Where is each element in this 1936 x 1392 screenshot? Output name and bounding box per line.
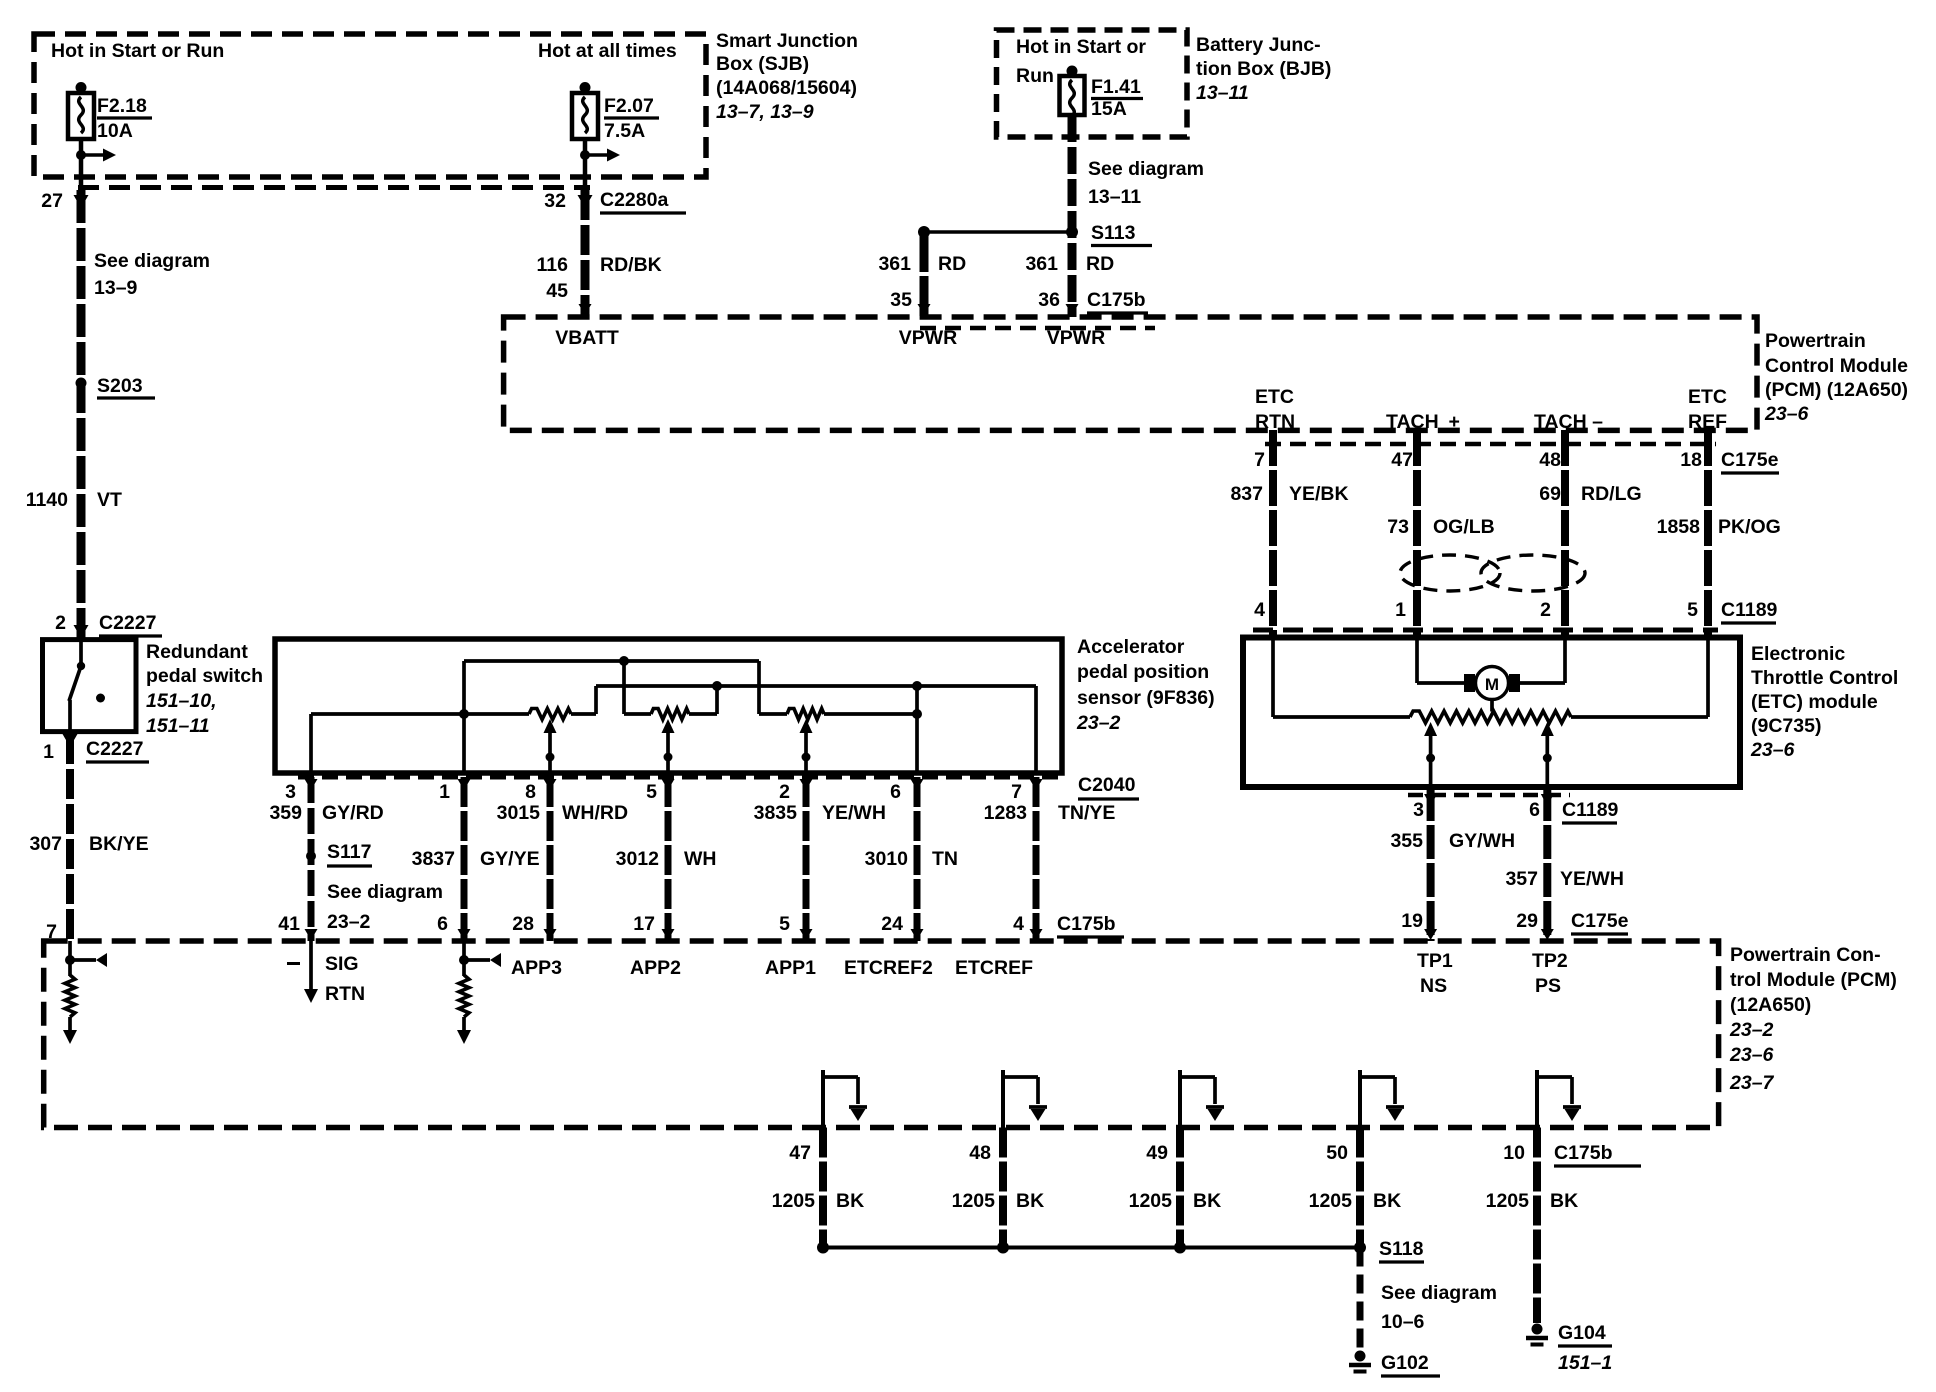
ground loop G3 inside PCM (1178, 1070, 1182, 1128)
svg-text:23–7: 23–7 (1729, 1072, 1775, 1094)
svg-text:1283: 1283 (984, 802, 1028, 824)
svg-text:18: 18 (1680, 449, 1702, 471)
svg-text:TP2: TP2 (1532, 950, 1568, 972)
pin entry arrow C175b (911, 929, 924, 940)
pin 1 connector C2227 (63, 734, 78, 747)
svg-text:pedal switch: pedal switch (146, 665, 263, 687)
svg-text:pedal position: pedal position (1077, 661, 1209, 683)
svg-text:Run: Run (1016, 65, 1054, 87)
wire pin1 riser (462, 661, 466, 773)
svg-text:48: 48 (969, 1142, 991, 1164)
svg-text:4: 4 (1254, 599, 1265, 621)
svg-text:13–7, 13–9: 13–7, 13–9 (716, 101, 814, 123)
svg-text:48: 48 (1539, 449, 1561, 471)
fuse F1.41 15A (1067, 66, 1078, 77)
Battery Junction Box (BJB) dashed enclosure (997, 30, 1188, 137)
svg-text:BK: BK (1373, 1190, 1401, 1212)
ground loop G4 inside PCM (1358, 1070, 1362, 1128)
Powertrain Control Module (PCM) lower dashed box (44, 941, 1719, 1128)
pin 5 connector C2040 (662, 779, 675, 790)
fuse F2.07 7.5A (580, 82, 591, 93)
pin 8 connector C2040 (544, 779, 557, 790)
svg-text:RTN: RTN (1255, 411, 1295, 433)
svg-text:S117: S117 (327, 841, 371, 863)
svg-text:M: M (1485, 675, 1499, 694)
svg-text:RD: RD (938, 253, 966, 275)
svg-text:ETCREF: ETCREF (955, 957, 1033, 979)
svg-text:VT: VT (97, 489, 122, 511)
pin entry arrow C175b (662, 929, 675, 940)
wiper TP1 (1429, 731, 1433, 787)
svg-text:29: 29 (1516, 910, 1538, 932)
svg-text:C175b: C175b (1057, 913, 1116, 935)
svg-text:17: 17 (633, 913, 655, 935)
connector C2040 dashed line (298, 775, 1062, 780)
svg-text:47: 47 (1391, 449, 1413, 471)
svg-text:GY/WH: GY/WH (1449, 830, 1515, 852)
svg-text:2: 2 (55, 612, 66, 634)
svg-text:See diagram: See diagram (327, 881, 443, 903)
svg-text:15A: 15A (1091, 98, 1127, 120)
pin entry arrow C175b (800, 929, 813, 940)
wire level2 to pin7 (596, 684, 1036, 688)
svg-text:Accelerator: Accelerator (1077, 636, 1185, 658)
svg-text:23–2: 23–2 (327, 911, 371, 933)
potentiometer track (1410, 711, 1571, 723)
svg-text:ETC: ETC (1688, 386, 1727, 408)
svg-text:APP2: APP2 (630, 957, 681, 979)
pin entry arrow C175b (305, 929, 318, 940)
svg-text:1205: 1205 (952, 1190, 996, 1212)
svg-text:See diagram: See diagram (1381, 1282, 1497, 1304)
svg-text:VPWR: VPWR (899, 327, 958, 349)
resistor R1 (529, 709, 571, 720)
svg-text:VBATT: VBATT (555, 327, 619, 349)
svg-text:Battery Junc-: Battery Junc- (1196, 34, 1321, 56)
svg-text:GY/RD: GY/RD (322, 802, 384, 824)
svg-text:2: 2 (1540, 599, 1551, 621)
svg-text:357: 357 (1505, 868, 1538, 890)
Electronic Throttle Control (ETC) module box (1243, 638, 1740, 788)
svg-text:7.5A: 7.5A (604, 120, 645, 142)
wire level1 (464, 659, 759, 663)
svg-text:73: 73 (1387, 516, 1409, 538)
svg-text:151–1: 151–1 (1558, 1352, 1612, 1374)
svg-text:50: 50 (1326, 1142, 1348, 1164)
svg-text:13–9: 13–9 (94, 277, 138, 299)
svg-text:7: 7 (1254, 449, 1265, 471)
svg-text:WH/RD: WH/RD (562, 802, 628, 824)
svg-text:TACH –: TACH – (1534, 411, 1603, 433)
svg-text:23–6: 23–6 (1729, 1044, 1774, 1066)
svg-text:APP1: APP1 (765, 957, 816, 979)
pin 50 wire circuit 1205 BK (1356, 1128, 1364, 1248)
svg-text:3835: 3835 (754, 802, 798, 824)
splice S203 (76, 378, 87, 389)
svg-text:359: 359 (269, 802, 302, 824)
svg-text:C2227: C2227 (99, 612, 156, 634)
wire fuse F2.07 output (583, 139, 588, 190)
wire circuit 69 RD/LG (TACH -) (1561, 430, 1569, 637)
splice S113 (1066, 226, 1078, 238)
svg-text:13–11: 13–11 (1088, 186, 1141, 208)
svg-text:1: 1 (1395, 599, 1406, 621)
wiper APP3 (548, 731, 552, 773)
svg-text:5: 5 (779, 913, 790, 935)
svg-text:See diagram: See diagram (94, 250, 210, 272)
pin 47 wire circuit 1205 BK (819, 1128, 827, 1248)
wire S113 branch (924, 230, 1072, 234)
svg-text:trol Module (PCM): trol Module (PCM) (1730, 969, 1897, 991)
wire pin7 riser (1034, 686, 1038, 773)
svg-text:19: 19 (1401, 910, 1423, 932)
svg-text:36: 36 (1038, 289, 1060, 311)
svg-text:F2.07: F2.07 (604, 95, 654, 117)
svg-text:Smart Junction: Smart Junction (716, 30, 858, 52)
wire circuit 73 OG/LB (TACH +) (1413, 430, 1421, 637)
svg-text:27: 27 (41, 190, 63, 212)
pin 6 connector C2040 (911, 779, 924, 790)
svg-text:3015: 3015 (497, 802, 541, 824)
svg-text:BK: BK (836, 1190, 864, 1212)
motor M1 wires (1415, 640, 1419, 683)
pin entry arrow C175b (1030, 929, 1043, 940)
pin 7 internal resistor (65, 955, 75, 965)
svg-text:35: 35 (890, 289, 912, 311)
wire circuit 3012 WH (665, 777, 672, 941)
svg-text:8: 8 (525, 781, 536, 803)
svg-text:Electronic: Electronic (1751, 643, 1845, 665)
svg-text:69: 69 (1539, 483, 1561, 505)
wire circuit 359 GY/RD (308, 777, 315, 941)
svg-text:10: 10 (1503, 1142, 1525, 1164)
svg-text:PK/OG: PK/OG (1718, 516, 1781, 538)
svg-text:S118: S118 (1379, 1238, 1424, 1260)
pin 2 connector C2040 (800, 779, 813, 790)
svg-text:6: 6 (437, 913, 448, 935)
svg-text:3837: 3837 (412, 848, 455, 870)
svg-text:116: 116 (537, 254, 569, 276)
svg-text:VPWR: VPWR (1047, 327, 1106, 349)
svg-text:41: 41 (278, 913, 300, 935)
connector C175e dashed line (1265, 442, 1716, 447)
svg-text:1205: 1205 (772, 1190, 816, 1212)
resistor R3 (757, 661, 761, 714)
svg-text:GY/YE: GY/YE (480, 848, 540, 870)
wiper APP1 (804, 731, 808, 773)
wire circuit 307 BK/YE (66, 734, 74, 941)
svg-text:YE/BK: YE/BK (1289, 483, 1349, 505)
svg-text:Box (SJB): Box (SJB) (716, 53, 809, 75)
fuse F2.18 10A (76, 82, 87, 93)
connector C1189 lower dashed line (1408, 793, 1570, 798)
svg-text:C2280a: C2280a (600, 189, 668, 211)
svg-text:F1.41: F1.41 (1091, 76, 1141, 98)
wiper APP2 (666, 731, 670, 773)
svg-text:BK: BK (1550, 1190, 1578, 1212)
redundant pedal switch (43, 640, 137, 732)
svg-text:23–2: 23–2 (1729, 1019, 1774, 1041)
svg-text:RD/LG: RD/LG (1581, 483, 1642, 505)
svg-text:C1189: C1189 (1721, 599, 1778, 621)
svg-text:S113: S113 (1091, 222, 1136, 244)
svg-text:ETCREF2: ETCREF2 (844, 957, 933, 979)
svg-text:ETC: ETC (1255, 386, 1294, 408)
svg-text:WH: WH (684, 848, 717, 870)
svg-text:Powertrain Con-: Powertrain Con- (1730, 944, 1881, 966)
ground loop G1 inside PCM (821, 1070, 825, 1128)
svg-text:Throttle Control: Throttle Control (1751, 667, 1898, 689)
svg-text:BK/YE: BK/YE (89, 833, 149, 855)
ground bus to S118 (823, 1246, 1360, 1250)
svg-text:10–6: 10–6 (1381, 1311, 1425, 1333)
svg-text:23–2: 23–2 (1076, 712, 1121, 734)
svg-text:1205: 1205 (1309, 1190, 1353, 1212)
pin entry arrow C175b (458, 929, 471, 940)
svg-text:307: 307 (29, 833, 62, 855)
svg-text:3010: 3010 (865, 848, 909, 870)
Smart Junction Box (SJB) dashed enclosure (34, 34, 706, 177)
svg-text:1140: 1140 (26, 489, 68, 511)
wire circuit 3835 YE/WH (803, 777, 810, 941)
pin 6 internal resistor (459, 955, 469, 965)
pin 41 SIG RTN (309, 941, 313, 989)
pin 3 connector C2040 (305, 779, 318, 790)
Powertrain Control Module (PCM) upper dashed box (504, 317, 1757, 430)
pin 10 wire circuit 1205 BK (1533, 1128, 1541, 1324)
wire circuit 1858 PK/OG (ETC REF) (1704, 430, 1712, 637)
svg-text:3: 3 (285, 781, 296, 803)
svg-text:SIG: SIG (325, 953, 359, 975)
svg-text:1: 1 (439, 781, 450, 803)
svg-text:49: 49 (1146, 1142, 1168, 1164)
svg-text:tion Box (BJB): tion Box (BJB) (1196, 58, 1331, 80)
svg-text:(14A068/15604): (14A068/15604) (716, 77, 857, 99)
svg-text:5: 5 (646, 781, 657, 803)
svg-text:2: 2 (779, 781, 790, 803)
svg-text:Control Module: Control Module (1765, 355, 1908, 377)
pin 7 connector C2040 (1030, 779, 1043, 790)
svg-text:C175b: C175b (1087, 289, 1146, 311)
svg-text:23–6: 23–6 (1764, 403, 1809, 425)
svg-text:1858: 1858 (1657, 516, 1701, 538)
connector C1189 dashed line (1253, 628, 1718, 633)
svg-text:10A: 10A (97, 120, 133, 142)
wire circuit 837 YE/BK (ETC RTN) (1269, 430, 1277, 637)
ground loop G2 inside PCM (1001, 1070, 1005, 1128)
svg-text:TACH +: TACH + (1386, 411, 1460, 433)
svg-text:C175b: C175b (1554, 1142, 1613, 1164)
svg-text:C2227: C2227 (86, 738, 143, 760)
svg-text:(ETC) module: (ETC) module (1751, 691, 1878, 713)
pin 1 connector C2040 (458, 779, 471, 790)
svg-text:47: 47 (789, 1142, 811, 1164)
svg-text:6: 6 (890, 781, 901, 803)
svg-text:1: 1 (43, 741, 54, 763)
motor M1 (1476, 667, 1509, 700)
wire S118 to G102 (1357, 1248, 1364, 1352)
wire ETC RTN to potentiometer (1271, 640, 1275, 717)
twisted pair symbol (1400, 555, 1500, 591)
svg-text:837: 837 (1230, 483, 1263, 505)
wire circuit 1283 TN/YE (1033, 777, 1040, 941)
resistor R2 (622, 661, 626, 714)
svg-text:Hot at all times: Hot at all times (538, 40, 677, 62)
svg-text:28: 28 (512, 913, 534, 935)
pin 48 wire circuit 1205 BK (999, 1128, 1007, 1248)
svg-text:1205: 1205 (1129, 1190, 1173, 1212)
svg-text:See diagram: See diagram (1088, 158, 1204, 180)
wire circuit 355 GY/WH (TP1) (1427, 787, 1435, 941)
svg-text:G104: G104 (1558, 1322, 1606, 1344)
wire fuse F2.18 output (79, 139, 84, 190)
svg-text:361: 361 (1025, 253, 1058, 275)
svg-text:361: 361 (878, 253, 911, 275)
svg-text:YE/WH: YE/WH (1560, 868, 1624, 890)
svg-text:Hot in Start or Run: Hot in Start or Run (51, 40, 224, 62)
svg-text:TN: TN (932, 848, 958, 870)
svg-text:PS: PS (1535, 975, 1561, 997)
svg-text:NS: NS (1420, 975, 1447, 997)
wire circuit 3837 GY/YE (461, 777, 468, 941)
svg-text:(PCM) (12A650): (PCM) (12A650) (1765, 379, 1908, 401)
svg-text:5: 5 (1687, 599, 1698, 621)
svg-text:S203: S203 (97, 375, 143, 397)
svg-text:YE/WH: YE/WH (822, 802, 886, 824)
svg-text:F2.18: F2.18 (97, 95, 147, 117)
wire fuse F1.41 output circuit 361 RD (1068, 115, 1077, 317)
svg-text:C1189: C1189 (1562, 799, 1619, 821)
svg-text:151–11: 151–11 (146, 715, 210, 737)
svg-text:RD: RD (1086, 253, 1114, 275)
svg-text:151–10,: 151–10, (146, 690, 217, 712)
wire circuit 357 YE/WH (TP2) (1543, 787, 1551, 941)
svg-text:BK: BK (1016, 1190, 1044, 1212)
svg-text:(9C735): (9C735) (1751, 715, 1821, 737)
svg-text:REF: REF (1688, 411, 1727, 433)
svg-text:7: 7 (1011, 781, 1022, 803)
svg-text:32: 32 (544, 190, 566, 212)
ground G104 (1532, 1324, 1543, 1335)
ground G102 (1355, 1351, 1366, 1362)
svg-text:Hot in Start or: Hot in Start or (1016, 36, 1146, 58)
svg-text:C175e: C175e (1721, 449, 1779, 471)
svg-text:13–11: 13–11 (1196, 82, 1249, 104)
svg-text:C2040: C2040 (1078, 774, 1136, 796)
svg-text:sensor (9F836): sensor (9F836) (1077, 687, 1215, 709)
pin entry arrow C175b (544, 929, 557, 940)
svg-text:C175e: C175e (1571, 910, 1629, 932)
wire dashed bus from fuse F2.18 to fuse F2.07 (78, 185, 590, 190)
wiper TP2 (1545, 731, 1549, 787)
svg-text:3012: 3012 (616, 848, 660, 870)
svg-text:24: 24 (881, 913, 903, 935)
svg-text:BK: BK (1193, 1190, 1221, 1212)
svg-text:G102: G102 (1381, 1352, 1429, 1374)
svg-text:3: 3 (1413, 799, 1424, 821)
svg-text:23–6: 23–6 (1750, 739, 1795, 761)
connector C175b dashed line at pins 35 36 (920, 326, 1155, 331)
ground loop G5 inside PCM (1535, 1070, 1539, 1128)
svg-text:RD/BK: RD/BK (600, 254, 662, 276)
splice S117 (306, 851, 316, 861)
svg-text:Redundant: Redundant (146, 641, 248, 663)
svg-text:(12A650): (12A650) (1730, 994, 1811, 1016)
svg-text:Powertrain: Powertrain (1765, 330, 1866, 352)
svg-text:OG/LB: OG/LB (1433, 516, 1495, 538)
svg-text:1205: 1205 (1486, 1190, 1530, 1212)
pin 49 wire circuit 1205 BK (1176, 1128, 1184, 1248)
svg-text:TP1: TP1 (1417, 950, 1453, 972)
wire pin3 to resistor network (309, 714, 313, 773)
wire ETC REF to potentiometer (1706, 640, 1710, 717)
svg-text:RTN: RTN (325, 983, 365, 1005)
svg-text:45: 45 (546, 280, 568, 302)
svg-text:APP3: APP3 (511, 957, 562, 979)
wire circuit 3015 WH/RD (547, 777, 554, 941)
svg-text:355: 355 (1390, 830, 1423, 852)
svg-text:6: 6 (1529, 799, 1540, 821)
svg-text:4: 4 (1013, 913, 1024, 935)
wire circuit 3010 TN (914, 777, 921, 941)
svg-text:TN/YE: TN/YE (1058, 802, 1115, 824)
Accelerator pedal position sensor (9F836) box (275, 639, 1062, 773)
wire circuit 361 RD branch vertical (920, 232, 929, 317)
